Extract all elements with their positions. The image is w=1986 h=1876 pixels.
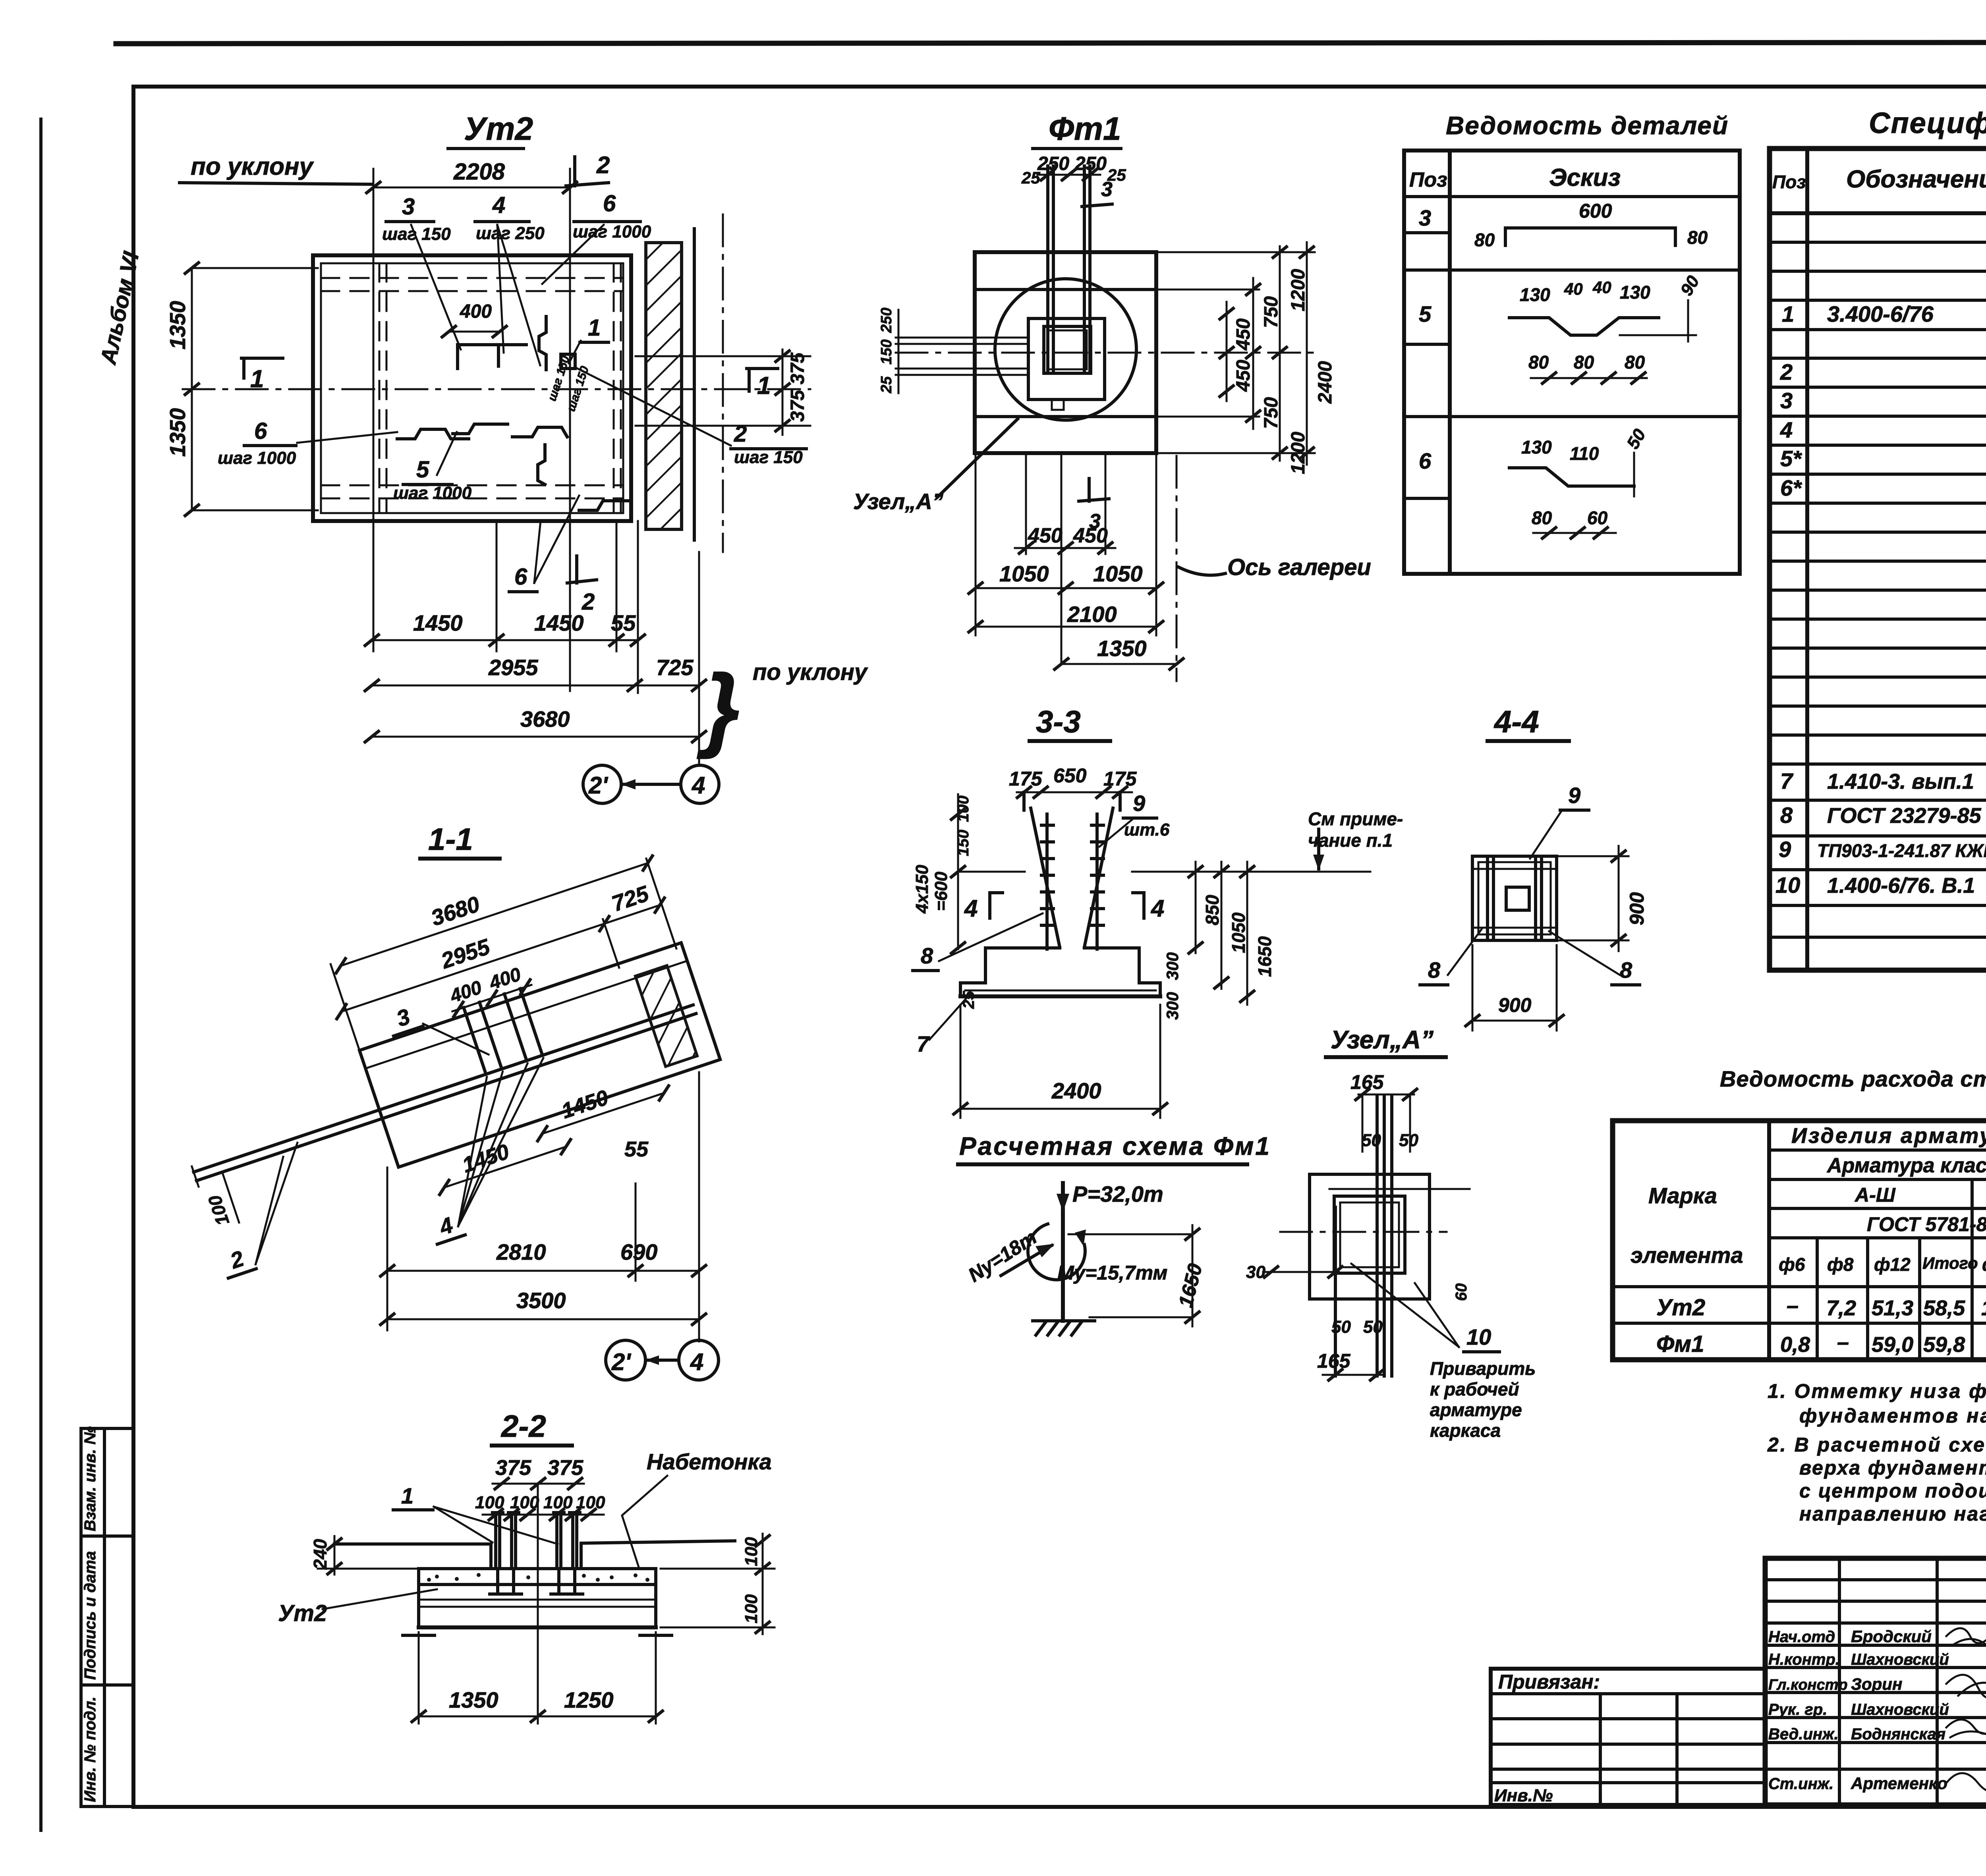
svg-text:фундаментов на листе 72.: фундаментов на листе 72.	[1799, 1405, 1986, 1427]
svg-text:850: 850	[1202, 895, 1223, 925]
svg-text:1-1: 1-1	[428, 822, 473, 857]
svg-text:7: 7	[1780, 768, 1794, 793]
svg-text:3: 3	[393, 1004, 413, 1031]
svg-text:2: 2	[1780, 359, 1793, 384]
svg-text:3680: 3680	[520, 706, 570, 731]
svg-text:8: 8	[1428, 957, 1441, 982]
svg-text:4: 4	[1780, 417, 1793, 442]
svg-text:Инв. № подл.: Инв. № подл.	[81, 1697, 99, 1802]
svg-text:Ут2: Ут2	[1656, 1295, 1705, 1320]
svg-text:3500: 3500	[516, 1288, 566, 1313]
svg-text:1.400-6/76. В.1: 1.400-6/76. В.1	[1827, 874, 1975, 897]
svg-text:4-4: 4-4	[1493, 704, 1539, 739]
svg-text:0,8: 0,8	[1780, 1333, 1810, 1357]
svg-text:80: 80	[1532, 508, 1552, 528]
svg-text:51,3: 51,3	[1872, 1296, 1913, 1320]
svg-text:Бродский: Бродский	[1851, 1627, 1932, 1646]
svg-text:175: 175	[1009, 768, 1043, 790]
svg-text:130: 130	[1620, 282, 1650, 303]
svg-text:3.400-6/76: 3.400-6/76	[1827, 301, 1934, 326]
svg-text:Набетонка: Набетонка	[647, 1449, 772, 1474]
svg-text:Приварить: Приварить	[1430, 1358, 1536, 1379]
svg-text:375: 375	[495, 1456, 531, 1480]
svg-text:80: 80	[1574, 352, 1594, 372]
svg-text:13,7: 13,7	[1981, 1296, 1986, 1320]
svg-text:по уклону: по уклону	[753, 659, 868, 685]
svg-text:А-Ш: А-Ш	[1854, 1184, 1896, 1206]
svg-text:9: 9	[1779, 837, 1791, 862]
svg-text:элемента: элемента	[1631, 1243, 1743, 1268]
svg-text:6: 6	[514, 564, 527, 590]
svg-text:4: 4	[692, 772, 705, 799]
svg-text:4: 4	[436, 1212, 456, 1240]
svg-text:50: 50	[1363, 1317, 1383, 1337]
svg-text:1250: 1250	[564, 1687, 614, 1712]
svg-text:59,0: 59,0	[1872, 1333, 1913, 1357]
svg-text:1: 1	[401, 1483, 413, 1508]
svg-text:4: 4	[492, 192, 505, 218]
svg-text:6: 6	[254, 418, 267, 444]
svg-text:шаг 1000: шаг 1000	[573, 222, 651, 241]
svg-text:3: 3	[1419, 205, 1431, 230]
svg-text:6*: 6*	[1780, 475, 1802, 500]
svg-text:4х150: 4х150	[912, 865, 932, 914]
svg-text:60: 60	[1587, 508, 1608, 528]
svg-text:450: 450	[1233, 318, 1254, 351]
svg-text:1350: 1350	[165, 408, 190, 457]
svg-text:Альбом VI: Альбом VI	[95, 249, 144, 367]
svg-text:Ось галереи: Ось галереи	[1227, 554, 1371, 580]
svg-text:650: 650	[1053, 764, 1087, 787]
svg-text:100: 100	[543, 1493, 573, 1512]
svg-text:7,2: 7,2	[1826, 1296, 1856, 1320]
svg-text:690: 690	[620, 1239, 657, 1264]
svg-text:Эскиз: Эскиз	[1549, 164, 1621, 191]
svg-text:Р=32,0т: Р=32,0т	[1072, 1181, 1163, 1206]
svg-text:250: 250	[878, 308, 895, 333]
svg-text:25: 25	[878, 376, 895, 394]
svg-text:9: 9	[1133, 791, 1145, 816]
svg-text:240: 240	[310, 1539, 330, 1570]
svg-text:50: 50	[1623, 426, 1650, 452]
svg-text:Взам. инв. №: Взам. инв. №	[81, 1426, 99, 1531]
svg-text:80: 80	[1528, 352, 1549, 372]
svg-text:Спецификация Ут2 и Фм1: Спецификация Ут2 и Фм1	[1869, 106, 1986, 139]
svg-text:ГОСТ 23279-85: ГОСТ 23279-85	[1827, 804, 1982, 828]
svg-text:См приме-: См приме-	[1308, 809, 1403, 829]
svg-text:Артеменко: Артеменко	[1851, 1774, 1947, 1793]
svg-text:2810: 2810	[496, 1239, 546, 1264]
svg-text:400: 400	[460, 301, 492, 322]
svg-text:Ут2: Ут2	[464, 111, 533, 147]
svg-text:58,5: 58,5	[1923, 1296, 1965, 1320]
svg-text:Подпись и дата: Подпись и дата	[81, 1551, 99, 1680]
svg-text:шт.6: шт.6	[1124, 820, 1170, 840]
svg-text:1. Отметку низа фундаментов: 1. Отметку низа фундаментов смотрите схе…	[1768, 1380, 1986, 1402]
svg-text:Привязан:: Привязан:	[1498, 1671, 1600, 1693]
svg-text:1450: 1450	[534, 610, 584, 635]
svg-text:1050: 1050	[1093, 561, 1143, 586]
svg-text:25: 25	[960, 991, 978, 1009]
svg-text:300: 300	[1163, 992, 1182, 1020]
svg-text:ГОСТ 5781-82: ГОСТ 5781-82	[1867, 1213, 1986, 1235]
svg-text:шаг 1000: шаг 1000	[393, 483, 472, 503]
svg-text:Изделия арматурные: Изделия арматурные	[1791, 1124, 1986, 1148]
svg-text:шаг 1000: шаг 1000	[218, 448, 296, 468]
svg-text:750: 750	[1261, 296, 1282, 328]
svg-text:Инв.№: Инв.№	[1494, 1786, 1553, 1805]
svg-text:Фт1: Фт1	[1049, 111, 1121, 147]
svg-text:–: –	[1787, 1294, 1799, 1318]
svg-text:Фм1: Фм1	[1656, 1331, 1704, 1357]
svg-text:450: 450	[1233, 360, 1254, 392]
svg-text:Марка: Марка	[1648, 1183, 1717, 1208]
svg-text:ф12: ф12	[1874, 1254, 1911, 1275]
svg-text:Ведомость расхода стали на: Ведомость расхода стали на элемент, кг	[1720, 1066, 1986, 1091]
svg-text:направлению нагрузок поперек: направлению нагрузок поперек галереи.	[1799, 1503, 1986, 1525]
svg-text:Шахновский: Шахновский	[1851, 1651, 1949, 1668]
svg-text:5: 5	[1419, 301, 1432, 326]
svg-text:Гл.констр: Гл.констр	[1768, 1677, 1848, 1693]
svg-text:50: 50	[1331, 1317, 1351, 1337]
svg-text:100: 100	[204, 1193, 234, 1228]
svg-text:ф6: ф6	[1982, 1254, 1986, 1275]
svg-text:165: 165	[1317, 1350, 1351, 1372]
svg-text:3-3: 3-3	[1036, 704, 1081, 739]
svg-text:1: 1	[757, 372, 771, 400]
svg-text:Узел„А”: Узел„А”	[853, 489, 943, 514]
svg-text:80: 80	[1474, 230, 1495, 250]
svg-text:4: 4	[964, 895, 978, 922]
svg-text:25: 25	[1021, 168, 1040, 187]
svg-text:Ведомость деталей: Ведомость деталей	[1446, 111, 1729, 140]
svg-text:Узел„А”: Узел„А”	[1331, 1025, 1433, 1054]
svg-text:Ст.инж.: Ст.инж.	[1768, 1775, 1833, 1793]
svg-text:7: 7	[917, 1031, 930, 1056]
svg-text:3: 3	[1780, 388, 1793, 413]
svg-text:1050: 1050	[1228, 912, 1249, 953]
svg-text:725: 725	[656, 655, 694, 680]
svg-text:1450: 1450	[558, 1085, 611, 1123]
svg-text:1350: 1350	[449, 1687, 498, 1712]
svg-text:5*: 5*	[1780, 446, 1802, 471]
svg-text:Боднянская: Боднянская	[1851, 1725, 1945, 1743]
svg-text:80: 80	[1687, 227, 1708, 248]
svg-text:5: 5	[416, 457, 429, 483]
svg-text:375: 375	[787, 390, 808, 422]
svg-text:900: 900	[1498, 994, 1532, 1016]
svg-text:ф8: ф8	[1827, 1254, 1854, 1275]
svg-text:верха фундамента, приложенны: верха фундамента, приложенные в условной…	[1799, 1457, 1986, 1479]
svg-text:шаг 150: шаг 150	[734, 448, 803, 467]
svg-text:2955: 2955	[488, 655, 538, 680]
svg-text:2400: 2400	[1051, 1078, 1101, 1103]
svg-text:=600: =600	[931, 871, 951, 911]
svg-text:50: 50	[1399, 1131, 1418, 1150]
svg-text:3680: 3680	[428, 891, 483, 930]
svg-text:2: 2	[596, 152, 610, 178]
svg-text:2': 2'	[588, 772, 608, 799]
svg-text:Зорин: Зорин	[1851, 1675, 1902, 1693]
svg-text:1450: 1450	[413, 610, 463, 635]
svg-text:3: 3	[402, 194, 415, 220]
svg-text:шаг 250: шаг 250	[476, 224, 545, 243]
svg-text:450: 450	[1073, 524, 1108, 547]
svg-text:100: 100	[742, 1537, 761, 1566]
svg-text:шаг 150: шаг 150	[545, 354, 572, 403]
svg-text:6: 6	[1419, 448, 1432, 473]
svg-text:Расчетная схема Фм1: Расчетная схема Фм1	[959, 1132, 1271, 1160]
svg-text:1: 1	[250, 365, 264, 393]
svg-text:Рук. гр.: Рук. гр.	[1768, 1701, 1827, 1718]
svg-text:2: 2	[227, 1246, 247, 1274]
svg-text:2955: 2955	[438, 934, 493, 973]
svg-text:Итого: Итого	[1922, 1254, 1978, 1272]
svg-text:–: –	[1837, 1330, 1849, 1354]
svg-text:Вед.инж.: Вед.инж.	[1768, 1725, 1839, 1743]
svg-text:1200: 1200	[1288, 269, 1309, 311]
svg-text:Нач.отд: Нач.отд	[1768, 1628, 1835, 1646]
svg-text:55: 55	[624, 1137, 649, 1161]
svg-text:1350: 1350	[165, 301, 190, 349]
svg-text:1650: 1650	[1254, 936, 1275, 977]
svg-text:4: 4	[690, 1349, 703, 1375]
svg-text:90: 90	[1677, 272, 1703, 299]
svg-text:130: 130	[1520, 284, 1550, 305]
svg-text:10: 10	[1775, 872, 1800, 897]
svg-text:Шахновский: Шахновский	[1851, 1701, 1949, 1718]
svg-text:арматуре: арматуре	[1430, 1399, 1522, 1420]
svg-text:1: 1	[1782, 301, 1794, 326]
svg-text:2: 2	[734, 421, 747, 447]
svg-text:Обозначение: Обозначение	[1846, 166, 1986, 193]
svg-text:40: 40	[1564, 280, 1583, 298]
svg-text:2100: 2100	[1067, 602, 1117, 627]
svg-text:900: 900	[1626, 892, 1648, 925]
svg-text:ТП903-1-241.87 КЖИ-С5,С6: ТП903-1-241.87 КЖИ-С5,С6	[1817, 840, 1986, 861]
svg-text:Поз: Поз	[1409, 168, 1447, 191]
svg-text:4: 4	[1151, 895, 1164, 922]
svg-text:каркаса: каркаса	[1430, 1420, 1501, 1441]
svg-text:375: 375	[547, 1456, 583, 1480]
svg-text:ф6: ф6	[1779, 1254, 1805, 1275]
svg-text:8: 8	[1780, 803, 1793, 828]
svg-text:Му=15,7тм: Му=15,7тм	[1057, 1262, 1167, 1284]
svg-text:2208: 2208	[453, 159, 505, 185]
svg-text:110: 110	[1570, 443, 1599, 464]
svg-text:2400: 2400	[1315, 361, 1336, 404]
svg-text:3: 3	[1101, 178, 1113, 201]
svg-text:Н.контр.: Н.контр.	[1768, 1651, 1840, 1668]
svg-text:2': 2'	[611, 1349, 631, 1375]
svg-text:к рабочей: к рабочей	[1430, 1379, 1519, 1399]
svg-text:8: 8	[921, 943, 933, 968]
svg-text:6: 6	[603, 191, 616, 216]
svg-text:130: 130	[1521, 437, 1552, 457]
svg-text:Поз: Поз	[1772, 172, 1806, 192]
svg-text:2-2: 2-2	[500, 1409, 546, 1444]
svg-text:}: }	[697, 655, 740, 759]
svg-text:750: 750	[1261, 397, 1282, 429]
svg-text:600: 600	[1579, 200, 1612, 222]
svg-text:1: 1	[588, 315, 601, 341]
svg-text:1650: 1650	[1174, 1261, 1206, 1310]
svg-text:8: 8	[1620, 957, 1632, 982]
svg-text:Ут2: Ут2	[278, 1600, 327, 1626]
svg-text:100: 100	[742, 1594, 761, 1623]
svg-text:40: 40	[1592, 278, 1611, 297]
svg-text:9: 9	[1568, 783, 1580, 808]
svg-text:60: 60	[1453, 1283, 1470, 1301]
svg-text:по уклону: по уклону	[191, 153, 314, 180]
svg-text:375: 375	[787, 352, 808, 384]
svg-text:2. В расчетной схеме указан: 2. В расчетной схеме указаны расчетные н…	[1767, 1434, 1986, 1456]
svg-text:55: 55	[611, 610, 636, 635]
svg-text:300: 300	[1163, 952, 1182, 980]
svg-text:Арматура класса: Арматура класса	[1826, 1154, 1986, 1177]
svg-text:10: 10	[1466, 1324, 1491, 1349]
svg-text:с центром подошвы фундамент: с центром подошвы фундамента. Индекс „у”…	[1799, 1480, 1986, 1502]
svg-text:1350: 1350	[1097, 636, 1147, 661]
svg-text:1050: 1050	[999, 561, 1049, 586]
svg-text:59,8: 59,8	[1923, 1333, 1965, 1357]
svg-text:чание п.1: чание п.1	[1308, 830, 1393, 851]
svg-text:1.410-3. вып.1: 1.410-3. вып.1	[1827, 770, 1974, 793]
svg-text:150: 150	[878, 340, 895, 365]
svg-text:80: 80	[1625, 352, 1645, 372]
